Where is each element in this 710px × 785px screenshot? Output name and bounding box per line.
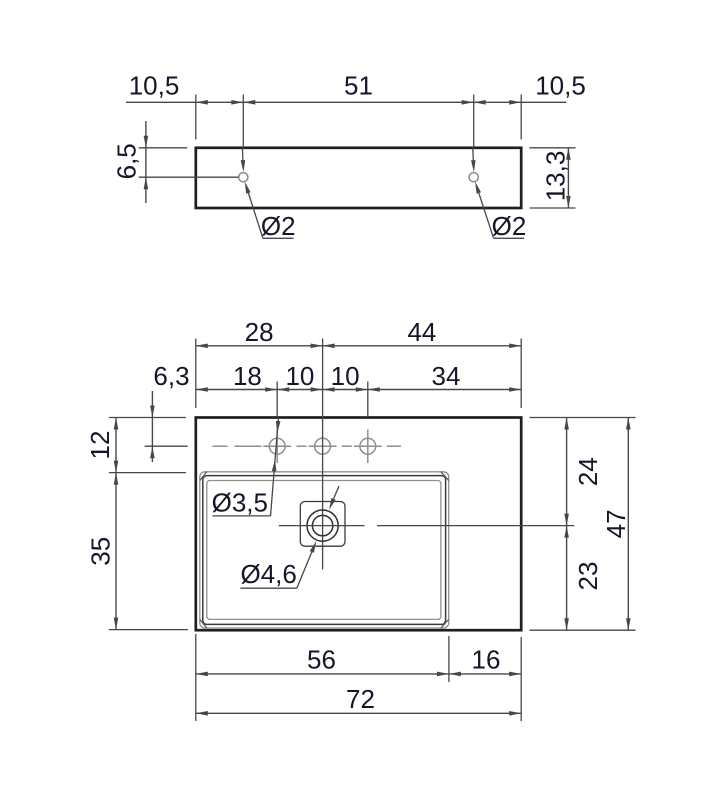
- svg-text:44: 44: [407, 317, 436, 347]
- faucet hole 1 (left) with center cross: [269, 430, 285, 464]
- svg-text:24: 24: [573, 457, 603, 486]
- top view basin body outline: [196, 148, 521, 208]
- svg-text:56: 56: [307, 645, 336, 675]
- dimension 18 / 10 / 10 / 34 (faucet hole spacing): [196, 361, 521, 418]
- svg-text:23: 23: [573, 562, 603, 591]
- svg-text:Ø3,5: Ø3,5: [212, 488, 268, 518]
- faucet hole 3 (right) with center cross: [360, 430, 376, 464]
- top view right mounting hole: [469, 173, 478, 182]
- svg-text:18: 18: [233, 361, 262, 391]
- svg-text:35: 35: [86, 537, 116, 566]
- svg-text:12: 12: [85, 431, 115, 460]
- dimension 10,5 / 51 / 10,5 (top view hole spacing): [126, 71, 586, 148]
- right extension lines: [530, 418, 636, 631]
- svg-text:10: 10: [331, 361, 360, 391]
- dimension 47 (overall depth): [601, 418, 631, 631]
- svg-text:Ø4,6: Ø4,6: [241, 559, 297, 589]
- faucet hole 2 (middle): [315, 438, 331, 454]
- svg-text:6,3: 6,3: [153, 361, 189, 391]
- svg-text:10,5: 10,5: [129, 71, 180, 101]
- dimension 12 (rim width top): [85, 418, 118, 473]
- label Ø3,5 with leader (faucet holes): [212, 418, 281, 518]
- svg-text:28: 28: [245, 317, 274, 347]
- svg-text:Ø2: Ø2: [492, 211, 527, 241]
- label Ø2 with leader (left hole): [241, 148, 296, 241]
- left extension lines: [109, 418, 188, 630]
- svg-text:16: 16: [472, 645, 501, 675]
- faucet holes dashed centerline: [213, 445, 402, 447]
- dimension 56 / 16 (basin width): [196, 634, 521, 721]
- svg-text:10,5: 10,5: [535, 71, 586, 101]
- basin rim (nested inner outlines): [200, 472, 449, 628]
- svg-text:34: 34: [432, 361, 461, 391]
- plan view outer outline: [196, 418, 521, 631]
- dimension 6,3 (faucet line offset): [145, 361, 190, 462]
- dimension 6,5 (hole height in top view): [112, 121, 239, 203]
- dimension 35 (basin depth extent): [86, 473, 119, 630]
- top view left mounting hole: [239, 173, 248, 182]
- svg-text:Ø2: Ø2: [261, 211, 296, 241]
- svg-text:47: 47: [601, 509, 631, 538]
- label Ø4,6 with leader (drain hole): [240, 486, 339, 589]
- svg-text:6,5: 6,5: [112, 143, 142, 179]
- dimension 72 (overall width): [196, 684, 521, 716]
- dimension 24 / 23 (drain vertical position): [564, 418, 603, 631]
- dimension 28 / 44 (drain position): [196, 317, 521, 408]
- svg-text:10: 10: [285, 361, 314, 391]
- extension line through middle hole and drain center: [322, 339, 324, 570]
- dimension 13,3 (top view thickness): [530, 148, 576, 208]
- svg-text:51: 51: [344, 71, 373, 101]
- label Ø2 with leader (right hole): [471, 148, 526, 241]
- svg-text:72: 72: [346, 684, 375, 714]
- drain with square flange and center lines: [279, 502, 575, 547]
- svg-text:13,3: 13,3: [541, 151, 571, 202]
